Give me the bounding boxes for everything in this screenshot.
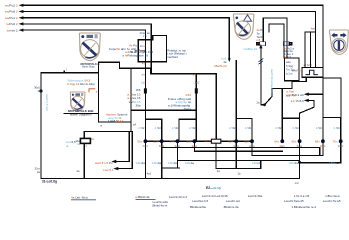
wire drop from dot 236 bbox=[235, 141, 237, 168]
svg-text:1.Nr.4 a.m5: 1.Nr.4 a.m5 bbox=[294, 194, 310, 198]
arrowhead L2 bbox=[19, 10, 24, 13]
connection box T32 outline bbox=[99, 62, 217, 139]
arrowhead switch feed up bbox=[259, 44, 262, 48]
svg-text:Blinkl.4a re: Blinkl.4a re bbox=[153, 204, 168, 208]
connector plug symbol right bbox=[283, 42, 291, 46]
fuse S2 bold bar bbox=[195, 88, 198, 93]
wire arrow right 1 bbox=[306, 93, 323, 95]
weave wire h147 bbox=[162, 141, 320, 178]
wire L2 (terminal feed) bbox=[21, 12, 316, 67]
svg-text:Tasta: Tasta bbox=[184, 107, 192, 111]
svg-text:4a.Leit.-Nr.w: 4a.Leit.-Nr.w bbox=[71, 196, 89, 200]
svg-text:w.Blinkl.4a: w.Blinkl.4a bbox=[135, 195, 150, 199]
watermark badge 1 (shield with slash, top) bbox=[79, 33, 100, 61]
wire leg from J519 right bbox=[340, 118, 342, 163]
svg-text:Blinkl.re.4a: Blinkl.re.4a bbox=[224, 205, 239, 209]
svg-text:62a: 62a bbox=[244, 139, 249, 143]
svg-text:4a Pu: 4a Pu bbox=[257, 28, 265, 32]
arrowhead left wire 1 bbox=[111, 160, 116, 163]
svg-text:140a4a: 140a4a bbox=[329, 161, 339, 165]
wire switch feed bbox=[260, 47, 262, 105]
bridge U3 bbox=[236, 119, 252, 142]
wire box bottom to fuse row bbox=[131, 109, 196, 111]
svg-text:w: w bbox=[257, 43, 259, 46]
svg-text:140a4a: 140a4a bbox=[252, 161, 262, 165]
weave wire h168 bbox=[216, 161, 261, 169]
svg-text:nachlauf: nachlauf bbox=[167, 55, 178, 59]
svg-text:2a: 2a bbox=[37, 170, 41, 174]
relay box J4 outline bbox=[138, 35, 166, 61]
svg-text:2,5br: 2,5br bbox=[334, 126, 340, 130]
terminal strip bus bbox=[145, 140, 252, 142]
wire drop from strip fuse bbox=[215, 143, 217, 168]
svg-text:Marke: Diagramm: Marke: Diagramm bbox=[70, 112, 92, 116]
svg-text:mBru.4a.w: mBru.4a.w bbox=[325, 194, 340, 198]
svg-text:s1 t2: s1 t2 bbox=[140, 44, 146, 48]
svg-text:2,5br: 2,5br bbox=[292, 126, 298, 130]
svg-text:w4aTm: w4aTm bbox=[292, 69, 301, 73]
arrowhead left wire 2 bbox=[113, 167, 118, 170]
arrowhead right wire 1 bbox=[304, 93, 309, 96]
pulse sender box G outline bbox=[302, 68, 323, 78]
bridge U1 bbox=[145, 119, 161, 141]
svg-text:ta: ta bbox=[66, 144, 69, 148]
svg-text:Te21: Te21 bbox=[257, 35, 263, 39]
wire dot299 drop bbox=[299, 113, 301, 178]
wire L5 (feed into relay J59) bbox=[21, 30, 145, 178]
connector plug symbol left bbox=[257, 42, 266, 46]
weave wire h162 bbox=[300, 162, 341, 164]
svg-text:ro/Pu6 2,: ro/Pu6 2, bbox=[6, 22, 19, 26]
weave wire h155 bbox=[252, 141, 323, 155]
ground bus wire bbox=[41, 177, 300, 179]
svg-text:140a4a: 140a4a bbox=[152, 161, 162, 165]
svg-text:Leit.Nr.44 Leit.Nr45: Leit.Nr.44 Leit.Nr45 bbox=[202, 194, 228, 198]
svg-text:MOTORTALK w: MOTORTALK w bbox=[81, 62, 101, 66]
svg-text:5.Spg: 5.Spg bbox=[286, 64, 294, 68]
svg-text:3a: 3a bbox=[257, 31, 260, 35]
svg-text:m4: m4 bbox=[295, 181, 299, 185]
svg-text:Leit.Nr.46a: Leit.Nr.46a bbox=[248, 194, 263, 198]
svg-text:14.5: 14.5 bbox=[204, 139, 210, 143]
svg-text:1a|2: 1a|2 bbox=[141, 81, 146, 84]
svg-text:64a: 64a bbox=[274, 139, 279, 143]
svg-text:a4a: a4a bbox=[286, 60, 291, 64]
svg-text:3am: 3am bbox=[320, 144, 326, 148]
svg-text:56a: 56a bbox=[186, 139, 191, 143]
svg-text:2,5br: 2,5br bbox=[316, 126, 322, 130]
svg-text:68a: 68a bbox=[315, 139, 320, 143]
svg-text:t.sw/ 5,1: t.sw/ 5,1 bbox=[103, 168, 114, 172]
svg-text:140a4a: 140a4a bbox=[135, 161, 145, 165]
svg-text:3am: 3am bbox=[249, 144, 255, 148]
svg-text:4 8: 4 8 bbox=[142, 62, 146, 65]
svg-text:sw/Pu8 2,: sw/Pu8 2, bbox=[5, 10, 19, 14]
svg-text:C.Spg.14 Abn.fu.Allg.i: C.Spg.14 Abn.fu.Allg.i bbox=[67, 82, 95, 86]
weave wire h151 bbox=[195, 141, 283, 151]
terminal dots row bbox=[144, 139, 343, 164]
watermark badge 4 (ignition switch icon) bbox=[329, 30, 348, 54]
arrowhead L5 bbox=[19, 29, 24, 32]
arrow wire left 2 bbox=[117, 131, 133, 168]
svg-text:Leucht.Ta.w5: Leucht.Ta.w5 bbox=[323, 199, 341, 203]
svg-text:2 6: 2 6 bbox=[143, 35, 147, 38]
fuse S1 bold bar bbox=[144, 88, 147, 93]
arrowhead node A down bbox=[228, 58, 231, 62]
svg-text:2,5br: 2,5br bbox=[138, 126, 144, 130]
arrowhead L3 bbox=[19, 16, 24, 19]
svg-text:m5: m5 bbox=[257, 38, 261, 42]
svg-text:Land St.Le: Land St.Le bbox=[108, 119, 124, 123]
wire L4 (feed into relay J59) bbox=[21, 24, 151, 74]
caption block A underline bbox=[71, 199, 96, 202]
svg-text:sw/bl 2,5 mm: sw/bl 2,5 mm bbox=[45, 94, 49, 112]
pin stub on left box bbox=[63, 71, 65, 73]
svg-text:4a m2: 4a m2 bbox=[284, 55, 292, 59]
svg-text:30a: 30a bbox=[135, 104, 140, 108]
svg-text:66a: 66a bbox=[292, 139, 297, 143]
svg-text:4am: 4am bbox=[311, 27, 316, 31]
svg-text:3am: 3am bbox=[279, 144, 285, 148]
wire arrow right 2 bbox=[300, 100, 314, 113]
svg-text:140a4a: 140a4a bbox=[168, 161, 178, 165]
junction dot on left wire bbox=[39, 89, 42, 92]
svg-text:2,5br: 2,5br bbox=[155, 126, 161, 130]
svg-text:25a/St.2d: 25a/St.2d bbox=[214, 64, 227, 68]
svg-text:70a: 70a bbox=[333, 139, 338, 143]
svg-text:sw/bl Stromlauf w4: sw/bl Stromlauf w4 bbox=[270, 69, 274, 94]
control unit J519 box bbox=[323, 78, 341, 118]
wire link to left box bbox=[99, 121, 132, 123]
svg-text:4a1: 4a1 bbox=[147, 171, 152, 175]
bridge U2 bbox=[179, 119, 196, 141]
svg-text:m: m bbox=[100, 125, 102, 128]
svg-text:sw/2,5 1.5 Pu: sw/2,5 1.5 Pu bbox=[95, 161, 113, 165]
svg-text:ms/Ben 21: ms/Ben 21 bbox=[243, 47, 257, 51]
svg-text:14a: 14a bbox=[75, 139, 80, 143]
svg-text:Leuchtw.4,5: Leuchtw.4,5 bbox=[192, 199, 208, 203]
switch contact dot bbox=[263, 103, 266, 106]
inline fuse S3 body bbox=[80, 138, 90, 143]
svg-text:sw/Pu1 2,: sw/Pu1 2, bbox=[5, 16, 19, 20]
svg-text:ws/Pu2 2,: ws/Pu2 2, bbox=[5, 4, 19, 8]
watermark badge 3 (warning triangle shield) bbox=[233, 14, 253, 39]
caption block B underline bbox=[136, 198, 156, 201]
svg-text:E2—w.sp: E2—w.sp bbox=[206, 186, 221, 190]
wire pulse box bottom route bbox=[261, 77, 306, 105]
svg-text:52a: 52a bbox=[154, 139, 159, 143]
svg-text:a.1/ Pu5.6: a.1/ Pu5.6 bbox=[291, 99, 305, 103]
svg-text:Leucht.Tast.45: Leucht.Tast.45 bbox=[284, 199, 304, 203]
svg-text:Marke Diagr: Marke Diagr bbox=[82, 66, 95, 69]
svg-text:3am: 3am bbox=[175, 144, 181, 148]
watermark badge 2 (shield with slash, in left box) bbox=[70, 92, 85, 111]
arrow wire left 1 bbox=[115, 131, 130, 161]
svg-text:sw/ws 2,: sw/ws 2, bbox=[7, 28, 19, 32]
svg-text:1.Blinkleuchte re.4: 1.Blinkleuchte re.4 bbox=[291, 205, 316, 209]
svg-text:3am: 3am bbox=[338, 144, 344, 148]
svg-text:2,5br: 2,5br bbox=[172, 126, 178, 130]
jog connector on switch feed wire bbox=[259, 59, 263, 64]
svg-text:a1 b2 c: a1 b2 c bbox=[304, 64, 313, 67]
svg-text:140a4a: 140a4a bbox=[288, 161, 298, 165]
svg-text:54a: 54a bbox=[169, 139, 174, 143]
svg-text:3am: 3am bbox=[297, 144, 303, 148]
svg-text:2,5br: 2,5br bbox=[189, 126, 195, 130]
svg-text:1a|2: 1a|2 bbox=[195, 81, 200, 84]
fuse holder wire bbox=[84, 131, 131, 178]
svg-text:3am: 3am bbox=[192, 144, 198, 148]
svg-text:2,5br: 2,5br bbox=[245, 126, 251, 130]
arrowhead L4 bbox=[19, 22, 24, 25]
bridge U4 bbox=[282, 89, 299, 179]
svg-text:140a4a: 140a4a bbox=[185, 161, 195, 165]
wire L1 (terminal 30 feed) bbox=[21, 5, 323, 78]
svg-text:Leit.Nr.43 w.4: Leit.Nr.43 w.4 bbox=[169, 195, 188, 199]
svg-text:3am: 3am bbox=[159, 144, 165, 148]
arrowhead L1 bbox=[19, 4, 24, 7]
inline fuse S4 on strip bbox=[211, 139, 220, 143]
svg-text:47 8: 47 8 bbox=[140, 49, 146, 53]
svg-text:2,5br: 2,5br bbox=[229, 126, 235, 130]
fuse box E-left outline bbox=[41, 73, 99, 179]
plug box U-right outline bbox=[285, 58, 300, 81]
svg-text:Leucht.w4: Leucht.w4 bbox=[226, 199, 240, 203]
wire leg from J519 left bbox=[322, 118, 324, 156]
svg-text:MOTORTALK Bild: MOTORTALK Bild bbox=[68, 109, 94, 113]
wire L3 (feed to node A) bbox=[21, 18, 229, 60]
svg-text:2,5br: 2,5br bbox=[275, 126, 281, 130]
svg-text:W: W bbox=[38, 89, 41, 93]
svg-text:a.1/ Pu4: a.1/ Pu4 bbox=[286, 93, 297, 97]
svg-text:3am: 3am bbox=[233, 144, 239, 148]
svg-text:m.Tast: m.Tast bbox=[286, 90, 294, 94]
pulse symbol in sender box bbox=[306, 70, 318, 74]
svg-text:50a: 50a bbox=[137, 139, 142, 143]
arrowhead right wire 2 bbox=[304, 99, 309, 102]
svg-text:31-Leit.ltg: 31-Leit.ltg bbox=[42, 180, 57, 184]
pin stubs on pulse box bbox=[305, 32, 316, 66]
connector mark near badge2 bbox=[89, 89, 95, 92]
wire top bridge inner bbox=[269, 24, 284, 58]
svg-text:a.4/Relaisplatte 19: a.4/Relaisplatte 19 bbox=[122, 53, 148, 57]
svg-text:60a: 60a bbox=[228, 139, 233, 143]
svg-text:Blinkleuchte: Blinkleuchte bbox=[190, 205, 207, 209]
wire node A drop bbox=[235, 61, 237, 142]
svg-text:3am: 3am bbox=[142, 144, 148, 148]
wire fuse S2 drop bbox=[195, 74, 197, 141]
wire top bridge outer bbox=[263, 18, 287, 58]
weave wire h160 bbox=[162, 141, 300, 168]
